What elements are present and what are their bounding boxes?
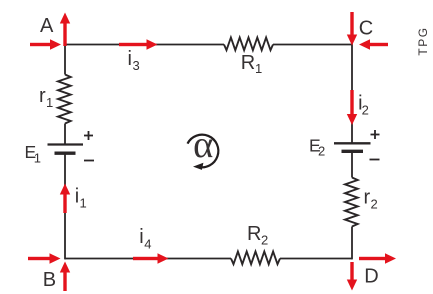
svg-text:i: i: [139, 226, 143, 248]
svg-text:B: B: [43, 269, 56, 291]
svg-text:r: r: [39, 85, 46, 107]
wire left branch A down to r1: [64, 44, 66, 75]
minus sign E2: [370, 159, 380, 161]
battery E2: [334, 143, 371, 151]
current arrow i3 on top wire: [119, 39, 158, 49]
svg-text:R: R: [247, 223, 261, 245]
svg-text:A: A: [40, 15, 54, 37]
label r2: [364, 187, 378, 212]
current arrow out of node A upward: [60, 13, 70, 47]
current arrow into node C from right: [359, 39, 388, 49]
current arrow out of node D to right: [359, 253, 396, 263]
wire battery E2 down to r2: [351, 151, 353, 177]
current arrow into node A from left: [30, 39, 61, 49]
loop direction arrow alpha: [188, 135, 219, 170]
svg-text:2: 2: [318, 144, 325, 159]
label i2: [358, 93, 369, 118]
resistor r2: [345, 178, 358, 227]
wire right branch C down to battery E2: [351, 44, 353, 144]
resistor r1: [58, 75, 71, 124]
svg-text:α: α: [193, 124, 213, 166]
svg-text:D: D: [364, 266, 378, 288]
svg-text:2: 2: [362, 103, 369, 118]
wire bottom left segment B to R2: [65, 258, 231, 260]
svg-text:r: r: [364, 187, 371, 209]
svg-text:4: 4: [144, 237, 151, 252]
svg-text:TPG: TPG: [416, 26, 430, 55]
label R1: [241, 52, 262, 76]
current arrow into node C downward: [347, 12, 357, 46]
current arrow i1 on left branch upward: [60, 184, 70, 214]
wire r1 to battery E1: [64, 124, 66, 145]
label E1: [25, 142, 42, 166]
wire battery E1 down to B: [64, 153, 66, 259]
label i4: [139, 226, 151, 252]
current arrow into node B from left: [28, 253, 61, 263]
label R2: [247, 223, 268, 247]
wire bottom right segment R2 to D: [280, 258, 352, 260]
current arrow out of node D downward: [347, 262, 357, 291]
svg-text:i: i: [128, 48, 132, 70]
label i3: [128, 48, 140, 73]
svg-text:1: 1: [80, 196, 87, 211]
current arrow into node B from below upward: [60, 262, 70, 292]
label r1: [39, 85, 53, 110]
svg-text:2: 2: [261, 232, 268, 247]
plus sign E1: [84, 131, 93, 140]
label i1: [75, 186, 87, 211]
svg-text:1: 1: [255, 61, 262, 76]
current arrow i4 on bottom wire: [133, 253, 169, 263]
label E2: [309, 136, 325, 159]
svg-text:C: C: [359, 17, 373, 39]
plus sign E2: [371, 130, 380, 139]
current arrow i2 on right branch: [347, 90, 357, 125]
wire top left segment A to R1: [65, 44, 224, 46]
battery E1: [48, 145, 84, 154]
resistor R1: [224, 38, 273, 51]
svg-text:3: 3: [133, 58, 140, 73]
resistor R2: [231, 252, 280, 265]
svg-text:1: 1: [46, 95, 53, 110]
wire r2 down to D: [351, 227, 353, 260]
svg-text:R: R: [241, 52, 255, 74]
wire top right segment R1 to C: [273, 44, 352, 46]
minus sign E1: [84, 160, 94, 162]
svg-text:2: 2: [371, 197, 378, 212]
svg-text:1: 1: [34, 151, 41, 166]
